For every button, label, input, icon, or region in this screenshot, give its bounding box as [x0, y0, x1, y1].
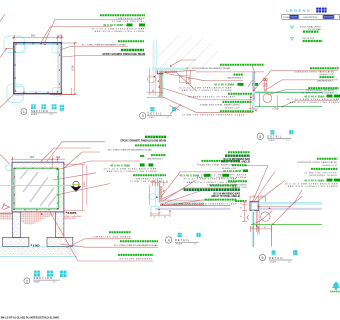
svg-text:BAR WITH CONNECTING SCREW: BAR WITH CONNECTING SCREW	[182, 89, 233, 92]
note glass clip d3	[200, 102, 254, 109]
note angle bar d4	[179, 174, 237, 185]
svg-text:EPOXY GRANITE FINISH (GLOW) BE: EPOXY GRANITE FINISH (GLOW) BEAM	[120, 139, 166, 142]
svg-text:5: 5	[259, 135, 261, 139]
legend entry top of soil	[291, 38, 323, 41]
note angle bar d3	[178, 83, 258, 93]
svg-text:TEMPERED GLASS: TEMPERED GLASS	[116, 17, 145, 20]
svg-text:GLASS CLIP: GLASS CLIP	[322, 164, 338, 167]
svg-text:40 X 40 X 3MM STEEL ANGLE BAR: 40 X 40 X 3MM STEEL ANGLE BAR	[284, 182, 338, 185]
svg-text:40: 40	[264, 227, 266, 229]
note frosted glass d4	[174, 200, 237, 206]
level text left foot	[31, 243, 40, 247]
note: epoxy granite beam (detail 1)	[103, 50, 145, 56]
logo bottom right	[330, 282, 340, 292]
glass green edge	[161, 71, 163, 97]
title detail 3	[140, 107, 173, 119]
svg-text:STAINLESS STEEL FABRICATED: STAINLESS STEEL FABRICATED	[297, 161, 337, 164]
svg-text:40 X 40 X 3MM STEEL ANGLE BAR: 40 X 40 X 3MM STEEL ANGLE BAR	[91, 27, 145, 30]
svg-text:12 MM THK FROSTED TEMPERED GLA: 12 MM THK FROSTED TEMPERED GLASS	[174, 203, 237, 206]
svg-text:40 X 40 X 3MM STEEL ANGLE BAR: 40 X 40 X 3MM STEEL ANGLE BAR	[103, 167, 157, 170]
left slope mark	[2, 203, 10, 210]
leader bottom-right corner	[50, 94, 74, 96]
planter walls outer	[12, 162, 64, 212]
red dots d2 frame	[13, 168, 58, 211]
note glass clip d4	[197, 161, 240, 170]
leader fan d4	[161, 172, 237, 206]
svg-text:10: 10	[257, 227, 259, 229]
dims d4	[150, 180, 171, 217]
dim ticks	[13, 37, 62, 39]
right leg	[55, 212, 64, 238]
svg-text:SCALE: SCALE	[148, 116, 155, 119]
soil hatch left	[0, 212, 12, 220]
ground slab	[0, 247, 77, 257]
corner callout bubble top-right	[52, 44, 62, 54]
svg-text:SCALE: SCALE	[34, 281, 41, 284]
horizontal cyan band d4	[160, 201, 204, 203]
bottom clip cyan box	[151, 206, 159, 214]
extra leader V	[170, 104, 181, 114]
right soil block	[64, 212, 77, 219]
svg-text:CODE: CODE	[283, 17, 289, 19]
svg-text:8: 8	[188, 79, 189, 81]
leader to angle bar note	[44, 19, 142, 44]
cyan vertical below d6	[252, 211, 255, 247]
note anchor bolt d3	[205, 75, 244, 81]
svg-text:(WELD TO STEEL ANGLE): (WELD TO STEEL ANGLE)	[221, 161, 250, 164]
svg-text:DETAIL: DETAIL	[267, 136, 282, 139]
svg-text:1:5: 1:5	[53, 282, 56, 284]
washer circle d5	[263, 94, 272, 103]
svg-text:ANCHOR BOLT: ANCHOR BOLT	[147, 158, 163, 161]
svg-text:SCALE: SCALE	[270, 260, 277, 263]
svg-text:25: 25	[154, 217, 156, 219]
svg-text:2: 2	[26, 279, 28, 283]
title detail 5	[257, 130, 293, 142]
svg-text:EXISTING BASEMENT: EXISTING BASEMENT	[120, 258, 153, 261]
yellow seal line	[155, 71, 157, 97]
svg-text:1000: 1000	[71, 65, 75, 71]
horizontal angle maroon d4	[160, 203, 204, 205]
svg-text:1: 1	[23, 110, 25, 114]
callout ellipse d4	[149, 194, 156, 200]
svg-text:40: 40	[261, 195, 263, 197]
level note green d6	[235, 200, 247, 202]
red dots detail 3	[154, 65, 172, 88]
cyan band right d6	[259, 202, 322, 204]
svg-text:DESCRIPTION: DESCRIPTION	[304, 17, 318, 19]
svg-text:STAINLESS STEEL FABRICATED: STAINLESS STEEL FABRICATED	[197, 164, 237, 167]
post square d6	[250, 202, 259, 211]
svg-text:EPOXY GRANITE FINISH HIGH BEAM: EPOXY GRANITE FINISH HIGH BEAM	[103, 53, 145, 56]
title detail 1	[21, 104, 64, 116]
svg-text:ANCHOR BOLT: ANCHOR BOLT	[317, 80, 333, 83]
svg-text:1:2: 1:2	[166, 117, 169, 119]
svg-text:SCALE: SCALE	[31, 113, 38, 116]
svg-text:40 X 40 X 3MM: 40 X 40 X 3MM	[103, 23, 124, 27]
dims d6	[242, 202, 272, 232]
mortar hatch below planter	[21, 212, 55, 225]
left foot	[3, 237, 29, 246]
svg-text:3: 3	[142, 114, 144, 118]
clip navy angle	[157, 70, 163, 74]
note: 40x40x3 angle bar (detail 1)	[91, 23, 145, 33]
glass inner cyan	[15, 170, 57, 208]
corner callout bubble bottom-left	[7, 84, 25, 103]
yellow mark d4	[159, 212, 161, 214]
vertical angle maroon d4	[160, 186, 163, 204]
svg-text:BAR WITH CONNECTING SCREW: BAR WITH CONNECTING SCREW	[197, 176, 248, 179]
washer circle slash d6	[259, 211, 273, 223]
dimension line 900/120 top	[12, 35, 64, 43]
svg-text:40 X 40 X 3MM: 40 X 40 X 3MM	[214, 83, 235, 87]
svg-text:R.C. STRUCTURE BY ENGINEER'S D: R.C. STRUCTURE BY ENGINEER'S DETAIL	[114, 244, 159, 247]
svg-text:STAINLESS STEEL FABRICATED: STAINLESS STEEL FABRICATED	[200, 104, 240, 107]
wall double cyan line	[153, 39, 155, 96]
svg-text:40 X 40 X 3MM: 40 X 40 X 3MM	[110, 163, 131, 167]
svg-text:BAR WITH CONNECTING SCREW: BAR WITH CONNECTING SCREW	[95, 30, 146, 33]
svg-text:5: 5	[252, 107, 253, 109]
svg-text:1000: 1000	[84, 181, 86, 187]
angle bar vertical maroon	[159, 71, 161, 97]
frame inner cyan lines	[16, 45, 58, 92]
svg-text:TOP OF SOIL: TOP OF SOIL	[302, 38, 315, 40]
purple line d6	[259, 207, 322, 209]
gray line d6	[259, 208, 322, 210]
leaders d5	[248, 66, 338, 107]
svg-text:SECTION: SECTION	[31, 110, 48, 113]
svg-text:15: 15	[153, 181, 155, 183]
svg-text:40: 40	[274, 107, 276, 109]
right vertical dim d2	[64, 164, 87, 211]
notes detail 6 right column	[284, 159, 340, 188]
svg-text:GLASS CLIP: GLASS CLIP	[319, 73, 335, 76]
svg-text:120: 120	[58, 33, 63, 37]
wall strip	[252, 72, 255, 101]
title detail 2	[24, 271, 67, 284]
callout ellipse	[147, 76, 156, 82]
svg-text:900: 900	[31, 33, 36, 37]
svg-text:BAR WITH CONNECTING SCREW: BAR WITH CONNECTING SCREW	[107, 170, 158, 173]
svg-text:R.C. STRUCTURE BY ENGINEER'S D: R.C. STRUCTURE BY ENGINEER'S DETAIL	[187, 67, 232, 70]
svg-text:R.C. STRUCTURE BY ENGINEER'S D: R.C. STRUCTURE BY ENGINEER'S DETAIL	[82, 43, 127, 46]
svg-text:SCALE: SCALE	[268, 139, 275, 142]
angle bar horizontal maroon	[159, 71, 177, 73]
bolt rect plan	[180, 76, 190, 83]
notes detail 6 left column	[197, 152, 251, 189]
svg-text:1:5: 1:5	[50, 114, 53, 116]
level text right	[64, 211, 82, 220]
green horizontal d6	[251, 224, 322, 226]
notes detail 2 bottom	[50, 212, 159, 261]
leaders d2 top	[40, 148, 91, 163]
svg-text:XM-LS-DT-01 GLASS PLANTER DETA: XM-LS-DT-01 GLASS PLANTER DETAILS-01.DWG	[1, 316, 60, 319]
dims d5	[249, 95, 280, 110]
note benso bar d4	[184, 190, 241, 199]
leader top-left corner	[0, 14, 5, 22]
svg-text:GLASS CLIP: GLASS CLIP	[232, 186, 248, 189]
leader top left d2	[0, 155, 9, 164]
svg-text:STAINLESS STEEL FABRICATED: STAINLESS STEEL FABRICATED	[294, 71, 334, 74]
svg-text:900: 900	[30, 155, 35, 159]
svg-text:25: 25	[240, 203, 242, 205]
svg-text:6: 6	[262, 256, 264, 260]
svg-text:ANCHOR BOLT: ANCHOR BOLT	[227, 77, 243, 80]
svg-text:40 X 40 X 3MM: 40 X 40 X 3MM	[223, 169, 241, 173]
red node dots on frame	[15, 43, 61, 93]
right strip hatch	[58, 44, 61, 92]
purple line d4	[155, 207, 231, 209]
svg-text:50: 50	[152, 91, 154, 93]
svg-text:40: 40	[164, 217, 166, 219]
svg-text:DETAIL: DETAIL	[269, 257, 284, 260]
glass streaks	[20, 170, 56, 207]
left leg	[12, 212, 20, 238]
svg-text:(WELD TO STEEL ANGLE): (WELD TO STEEL ANGLE)	[211, 195, 240, 198]
svg-text:LEGEND: LEGEND	[286, 8, 311, 13]
svg-text:COMPACTED SUB-GRADE: COMPACTED SUB-GRADE	[92, 235, 131, 238]
svg-text:15: 15	[240, 208, 242, 210]
legend entry structural level	[291, 26, 322, 32]
svg-text:8.60PS: 8.60PS	[68, 211, 77, 215]
svg-text:25: 25	[253, 195, 255, 197]
notes detail 5 right column	[286, 68, 340, 104]
frame outer square	[14, 43, 62, 94]
svg-text:TEMPERED GLASS: TEMPERED GLASS	[309, 174, 338, 177]
svg-text:4: 4	[168, 239, 170, 243]
corner callout bubble top-left	[4, 36, 26, 53]
title detail 6	[259, 250, 297, 263]
vertical glass channel	[156, 176, 160, 207]
green vertical d6	[252, 212, 254, 247]
corner callout bubble bottom-right	[53, 88, 63, 97]
svg-text:15: 15	[251, 227, 253, 229]
svg-text:10: 10	[159, 181, 161, 183]
svg-text:1:2: 1:2	[286, 140, 289, 142]
glass cyan edge	[162, 71, 164, 97]
structural level cyan line	[0, 185, 72, 187]
red dots d4	[156, 190, 171, 211]
svg-text:120: 120	[56, 155, 61, 159]
leader fan d6	[244, 166, 302, 225]
leader to RC structure note	[60, 46, 128, 50]
svg-text:SECTION: SECTION	[34, 277, 54, 280]
svg-text:50: 50	[240, 216, 242, 218]
level marker d2	[71, 181, 82, 192]
note: rc structure (detail 1)	[82, 41, 144, 46]
svg-text:40 X 40 X 3MM: 40 X 40 X 3MM	[304, 178, 325, 182]
svg-text:RUBBER GASKET OF SEALANT: RUBBER GASKET OF SEALANT	[188, 96, 236, 99]
ledge cyan band	[153, 68, 188, 70]
note rubber gasket d3	[188, 94, 252, 100]
leaders d2 right notes	[53, 152, 140, 195]
dim lines detail 3	[147, 68, 191, 98]
gray vertical pair d6	[257, 211, 259, 236]
svg-text:1:2: 1:2	[194, 244, 197, 246]
svg-text:12 MM THK FROSTED TEMPERED GLA: 12 MM THK FROSTED TEMPERED GLASS	[182, 113, 245, 116]
existing structure diagonal hatch	[157, 35, 218, 79]
svg-text:40 X 40 X 3MM STEEL ANGLE BAR: 40 X 40 X 3MM STEEL ANGLE BAR	[286, 98, 340, 101]
note: tempered glass (detail 1)	[100, 15, 145, 23]
red dots d6	[251, 201, 290, 227]
svg-text:DETAIL: DETAIL	[175, 239, 190, 242]
leader to tempered glass note	[41, 27, 113, 44]
right foot	[47, 237, 73, 246]
slope bracket d6	[247, 215, 249, 219]
top dim d2	[12, 157, 65, 171]
note rubber gasket d4	[210, 185, 237, 187]
svg-text:40 X 40 X 3MM STEEL ANGLE BAR: 40 X 40 X 3MM STEEL ANGLE BAR	[178, 87, 232, 90]
leaders detail 3 fan	[163, 60, 254, 112]
svg-text:STAINLESS STEEL FABRICATED: STAINLESS STEEL FABRICATED	[207, 184, 247, 187]
svg-text:40 X 40 X 3MM STEEL ANGLE: 40 X 40 X 3MM STEEL ANGLE	[201, 173, 247, 176]
glass panel	[14, 168, 58, 209]
notes detail 2 right	[103, 137, 166, 183]
note rc structure d3	[187, 65, 264, 72]
svg-text:50 X 50 MM BENSO BAR: 50 X 50 MM BENSO BAR	[223, 158, 250, 161]
title detail 4	[166, 233, 201, 246]
leader left edge	[0, 49, 14, 58]
leader to epoxy granite note	[62, 56, 145, 57]
dim above post d6	[250, 196, 266, 202]
svg-text:BAR WITH CONNECTING SCREW: BAR WITH CONNECTING SCREW	[288, 185, 339, 188]
svg-text:R.C. STRUCTURE BY ENGINEER'S D: R.C. STRUCTURE BY ENGINEER'S DETAIL	[108, 148, 153, 151]
svg-text:BAR WITH CONNECTING SCREW: BAR WITH CONNECTING SCREW	[290, 101, 340, 104]
green lines d5	[255, 92, 322, 94]
vertical dimension 1000 right	[62, 43, 77, 95]
svg-text:50: 50	[158, 96, 160, 98]
glass band cyan	[252, 91, 337, 94]
red dots d5	[250, 79, 282, 112]
svg-text:GLASS CLIP: GLASS CLIP	[225, 106, 241, 109]
svg-text:40 X 40 X 3MM: 40 X 40 X 3MM	[304, 94, 325, 98]
red vertical line d6	[256, 211, 258, 227]
svg-text:1:2: 1:2	[288, 261, 291, 263]
svg-text:25: 25	[166, 181, 168, 183]
leader bottom-left corner	[0, 94, 14, 108]
green line d4	[160, 205, 231, 207]
gray line d4	[155, 208, 231, 210]
callout ellipse d2	[6, 165, 13, 171]
red dot hatch	[41, 213, 43, 215]
svg-text:STRUCTURAL LEVEL/: STRUCTURAL LEVEL/	[300, 26, 321, 29]
svg-text:SCALE: SCALE	[176, 243, 183, 246]
cyan mark near leaders	[172, 107, 176, 111]
svg-text:TEMPERED GLASS: TEMPERED GLASS	[306, 89, 335, 92]
svg-text:DETAIL: DETAIL	[147, 113, 162, 116]
note frosted glass d3	[182, 111, 254, 116]
anchor bolt d5	[263, 79, 269, 91]
svg-text:50 X 50 MM BENSO BAR: 50 X 50 MM BENSO BAR	[213, 193, 240, 196]
